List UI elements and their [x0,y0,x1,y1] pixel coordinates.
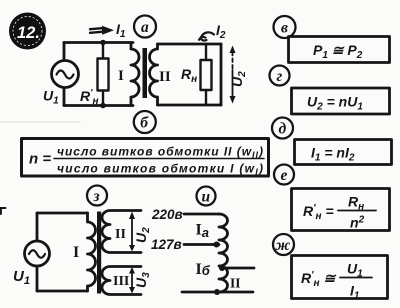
svg-text:Rн: Rн [181,66,197,85]
svg-text:б: б [140,115,149,132]
svg-text:Iа: Iа [196,222,209,241]
wire left side (circuit z) [36,213,39,291]
svg-text:I2: I2 [216,22,226,41]
formula box e: R'n = Rn/n^2 [292,189,390,231]
label circle v [274,16,296,38]
formula box zh: R'n = U1/I1 [292,256,388,302]
formula box v: P1 = P2 [289,37,390,63]
resistor Rn [201,44,212,105]
junction node bottom [214,289,220,295]
svg-text:число витков обмотки II (wII): число витков обмотки II (wII) [57,145,263,161]
resistor R'n [98,43,109,106]
wire top of loop (circuit z) [37,212,88,215]
wire output tap (circuit i) [222,267,254,270]
wire top-left loop of circuit a [64,41,133,44]
junction node 127V tap [214,242,220,248]
svg-text:II: II [159,69,171,85]
current arrow I2 [199,32,214,40]
svg-text:II: II [115,227,126,242]
junction node bottom of R'n [100,103,106,109]
autotransformer winding I (circuit i) [219,214,228,292]
junction node output tap [219,265,225,271]
wire right side of right loop [220,44,223,105]
wire left side with source branch [63,43,66,106]
label circle e [274,165,294,185]
svg-text:127в: 127в [151,237,182,252]
svg-text:Iб: Iб [196,261,211,278]
scan artifact marks at left edge [0,208,6,214]
svg-text:г: г [277,68,283,85]
voltage arrow U2 (circuit a) [230,46,236,104]
svg-text:n =: n = [29,151,51,168]
svg-text:U3: U3 [133,272,152,288]
svg-text:число витков обмотки I (wI): число витков обмотки I (wI) [57,162,263,178]
formula box d: I1 = nI2 [295,140,392,165]
svg-text:ж: ж [276,237,291,254]
winding II (circuit z) [102,211,141,253]
label circle d [272,118,293,139]
junction node top of R'n [100,40,106,46]
svg-text:в: в [281,20,288,37]
svg-text:I: I [118,68,124,84]
winding III (circuit z) [102,267,141,295]
AC source U1 (circuit a) [52,61,79,88]
svg-text:I: I [73,244,79,261]
svg-text:и: и [202,189,211,206]
winding I (circuit a) [131,43,139,106]
svg-text:U1: U1 [13,268,30,287]
formula box g: U2 = nU1 [292,88,390,114]
winding II (circuit a) [150,44,158,105]
svg-text:а: а [141,19,149,36]
svg-text:220в: 220в [151,207,183,222]
label circle z [87,186,107,206]
current arrow I1 [90,26,114,35]
svg-text:д: д [279,121,287,138]
wire bottom terminal (circuit i) [182,291,253,294]
svg-text:I1: I1 [116,21,126,40]
wire bottom of left loop [64,104,133,107]
AC source U1 (circuit z) [25,241,50,266]
core (circuit a) [143,48,148,98]
svg-text:III: III [113,274,129,289]
voltage arrow U2 (circuit z) [129,212,135,252]
wire bottom (circuit z) [37,290,88,293]
label circle i [197,187,216,206]
svg-text:U2: U2 [133,227,152,243]
wire top of right loop (circuit a) [158,43,222,46]
badge 12 [9,13,46,50]
formula box b: n = ratio of turns [22,139,269,178]
core (circuit z) [97,212,101,294]
svg-text:е: е [281,167,288,184]
svg-text:U1: U1 [43,88,59,107]
winding I (circuit z) [88,213,96,291]
label circle a [134,16,156,38]
label circle g [270,66,290,86]
svg-text:з: з [93,188,100,205]
label circle b [134,111,156,133]
voltage arrow U3 (circuit z) [129,267,135,294]
svg-text:II: II [230,276,241,291]
label circle zh [273,234,294,255]
wire 127V terminal [184,243,219,246]
wire 220V terminal [184,213,219,216]
wire bottom of right loop [158,104,222,107]
svg-text:12.: 12. [17,24,40,42]
